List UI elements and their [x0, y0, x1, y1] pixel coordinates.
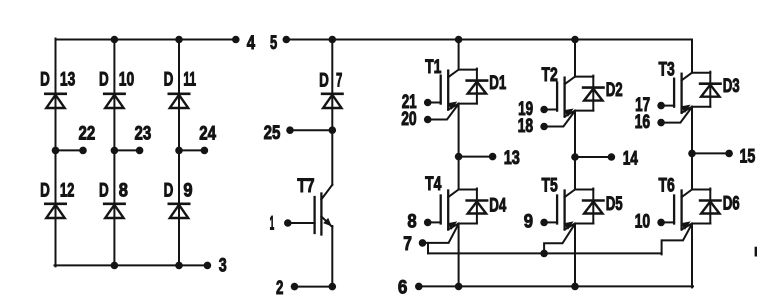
node 4 label: [247, 32, 255, 54]
svg-text:7: 7: [403, 233, 412, 255]
diode D6: [700, 201, 720, 214]
node 16 label: [635, 111, 651, 133]
svg-text:D: D: [319, 69, 329, 91]
svg-text:6: 6: [398, 277, 408, 297]
svg-text:9: 9: [524, 211, 533, 233]
transistor T2 collector diagonal: [565, 77, 575, 85]
node 2 terminal: [291, 283, 299, 291]
svg-text:12: 12: [60, 180, 75, 202]
svg-text:D: D: [164, 180, 174, 202]
svg-text:T7: T7: [297, 175, 314, 197]
svg-text:D: D: [40, 180, 50, 202]
diode D1 connection wires: [459, 69, 477, 104]
transistor T6 collector diagonal: [682, 190, 692, 198]
diode D6 connection wires: [692, 189, 710, 224]
svg-text:D6: D6: [723, 193, 740, 215]
svg-text:D4: D4: [489, 195, 506, 217]
diode D2 label: [606, 79, 623, 101]
transistor T2 gate bar: [556, 83, 558, 111]
node 6 label: [398, 277, 408, 297]
transistor T1 body bar: [447, 71, 449, 110]
diode D13 label: [40, 69, 75, 91]
transistor T4 collector diagonal: [448, 190, 458, 198]
transistor T5 emitter diagonal: [564, 221, 575, 229]
svg-text:14: 14: [623, 148, 638, 170]
transistor T4 gate bar: [440, 196, 442, 224]
transistor T6 label: [659, 175, 675, 197]
node 3 terminal: [204, 262, 212, 270]
svg-text:D: D: [40, 69, 50, 91]
transistor T3 emitter diagonal: [681, 105, 692, 113]
junction bottom rail / leg 1: [455, 283, 463, 291]
wire leg 1 midpoint: [458, 104, 460, 190]
svg-text:16: 16: [635, 111, 651, 133]
diode D11: [169, 94, 189, 108]
diode D9 label: [164, 180, 193, 202]
diode D1: [467, 81, 487, 94]
svg-text:9: 9: [183, 180, 192, 202]
svg-text:2: 2: [276, 277, 283, 297]
transistor T6 emitter diagonal: [681, 221, 692, 229]
svg-text:D: D: [99, 69, 109, 91]
svg-text:4: 4: [247, 32, 255, 54]
diode D2 connection wires: [575, 76, 593, 111]
svg-text:3: 3: [219, 254, 227, 276]
wire T5 gate lead (node 9): [544, 221, 557, 223]
svg-text:10: 10: [119, 69, 135, 91]
node 14 terminal: [608, 153, 616, 161]
transistor T5 collector diagonal: [565, 190, 575, 198]
transistor T3 collector diagonal: [682, 73, 692, 81]
node 8 terminal: [424, 219, 432, 227]
svg-text:20: 20: [401, 108, 417, 130]
wire stub node 24: [179, 149, 204, 151]
svg-text:8: 8: [407, 211, 416, 233]
node 3 label: [219, 254, 227, 276]
svg-text:13: 13: [504, 147, 520, 169]
junction top rail / column 3: [175, 36, 183, 44]
junction bottom rail / column 3: [175, 262, 183, 270]
svg-text:D: D: [164, 69, 174, 91]
node 18 terminal: [540, 123, 548, 131]
svg-text:T6: T6: [659, 175, 675, 197]
junction leg 2 / node 14: [571, 153, 579, 161]
node 18 label: [518, 115, 534, 137]
node 24 terminal: [201, 147, 209, 155]
diode D9: [169, 204, 189, 218]
wire T1 gate lead (node 21): [428, 102, 441, 104]
wire node 15 stub: [692, 152, 729, 154]
diode D3 connection wires: [692, 72, 710, 107]
node 17 label: [635, 94, 650, 116]
junction bottom rail / leg 2: [571, 283, 579, 291]
node 20 label: [401, 108, 417, 130]
diode D10: [104, 94, 124, 108]
cropped character at right edge: [755, 247, 757, 257]
diode D8 label: [99, 180, 128, 202]
svg-text:11: 11: [183, 69, 196, 91]
transistor T4 body bar: [447, 191, 449, 230]
junction leg 3 / node 15: [688, 150, 696, 158]
wire T3 gate lead (node 17): [661, 105, 674, 107]
wire T5 auxiliary emitter riser: [544, 224, 575, 254]
node 15 label: [740, 146, 756, 168]
junction chopper / node 25: [329, 126, 337, 134]
diode D4 label: [489, 195, 506, 217]
wire node 14 stub: [575, 156, 611, 158]
svg-text:24: 24: [199, 123, 216, 145]
wire left rectifier column 3: [178, 40, 180, 266]
junction emitter bus / T5 riser: [540, 250, 548, 258]
node 17 terminal: [657, 102, 665, 110]
node 14 label: [623, 148, 638, 170]
transistor T1 label: [425, 56, 441, 78]
node 24 label: [199, 123, 216, 145]
diode D3 label: [723, 75, 740, 97]
svg-text:25: 25: [264, 122, 281, 144]
svg-text:15: 15: [740, 146, 756, 168]
wire T6 gate lead (node 10): [661, 221, 674, 223]
svg-text:T3: T3: [659, 59, 675, 81]
svg-text:22: 22: [79, 123, 96, 145]
svg-text:T2: T2: [542, 64, 558, 86]
node 8 label: [407, 211, 416, 233]
node 21 label: [402, 91, 417, 113]
junction top rail / leg 1: [455, 36, 463, 44]
transistor T7 gate bar: [313, 197, 315, 233]
wire left rectifier column 2: [113, 40, 115, 266]
wire T4 emitter to bottom rail: [458, 224, 460, 287]
transistor T7 label: [297, 175, 314, 197]
diode D11 label: [164, 69, 197, 91]
diode D10 label: [99, 69, 134, 91]
node 19 label: [518, 98, 533, 120]
wire bottom DC- rail (node 6 rail): [419, 285, 693, 287]
node 7 label: [403, 233, 412, 255]
wire left rectifier column 1: [55, 39, 57, 267]
transistor T7 emitter diagonal: [321, 217, 332, 228]
node 5 terminal: [283, 36, 291, 44]
wire T1 auxiliary emitter lead (node 20): [428, 104, 459, 120]
diode D4 connection wires: [459, 189, 477, 224]
transistor T3 body bar: [680, 74, 682, 113]
node 19 terminal: [540, 106, 548, 114]
junction column / node 23: [111, 147, 119, 155]
diode D1 label: [489, 72, 506, 94]
transistor T2 label: [542, 64, 558, 86]
svg-text:23: 23: [135, 123, 152, 145]
diode D4: [467, 201, 487, 214]
wire T3 auxiliary emitter lead (node 16): [661, 107, 692, 123]
node 13 terminal: [489, 153, 497, 161]
diode D3: [700, 84, 720, 97]
svg-text:T1: T1: [425, 56, 441, 78]
diode D12: [45, 204, 65, 218]
wire T2 auxiliary emitter lead (node 18): [544, 111, 575, 127]
wire main DC+ top rail (node 5 rail): [286, 39, 692, 41]
wire node 7 lead to T4 emitter: [423, 224, 459, 243]
wire auxiliary emitter bus: [428, 252, 662, 254]
transistor T2 body bar: [563, 78, 565, 117]
diode D6 label: [723, 193, 740, 215]
wire T2 gate lead (node 19): [544, 109, 557, 111]
svg-text:8: 8: [119, 180, 128, 202]
wire chopper column lower: [331, 226, 333, 287]
wire T1 collector from rail: [458, 40, 460, 70]
junction leg 1 / node 13: [455, 153, 463, 161]
transistor T3 gate bar: [673, 79, 675, 107]
svg-text:18: 18: [518, 115, 534, 137]
wire bottom-left rail (node 3 rail): [55, 264, 208, 266]
diode D2: [583, 88, 603, 101]
diode D7: [322, 94, 342, 108]
transistor T4 emitter diagonal: [447, 221, 458, 229]
junction column / node 22: [52, 147, 60, 155]
diode D5 label: [606, 193, 623, 215]
transistor T7 body bar: [320, 194, 322, 235]
wire node 13 stub: [459, 156, 493, 158]
wire node 2 stub: [295, 286, 333, 288]
transistor T2 emitter diagonal: [564, 109, 575, 117]
svg-text:D3: D3: [723, 75, 740, 97]
wire T4 gate lead (node 8): [428, 221, 441, 223]
junction bottom rail / column 2: [111, 262, 119, 270]
node 21 terminal: [424, 99, 432, 107]
node 10 terminal: [657, 219, 665, 227]
svg-text:D1: D1: [489, 72, 506, 94]
node 22 terminal: [79, 147, 87, 155]
transistor T6 gate bar: [673, 196, 675, 224]
svg-text:D5: D5: [606, 193, 623, 215]
wire T6 emitter to bottom rail: [691, 224, 693, 288]
node 22 label: [79, 123, 96, 145]
wire leg 3 midpoint: [691, 107, 693, 190]
node 1 terminal: [284, 219, 292, 227]
transistor T7 collector diagonal: [321, 185, 332, 200]
svg-text:5: 5: [270, 32, 277, 54]
node 16 terminal: [657, 119, 665, 127]
node 1 label: [270, 212, 275, 234]
node 9 label: [524, 211, 533, 233]
svg-text:D2: D2: [606, 79, 623, 101]
transistor T5 gate bar: [556, 196, 558, 224]
svg-text:13: 13: [60, 69, 76, 91]
transistor T5 body bar: [563, 191, 565, 230]
node 9 terminal: [540, 219, 548, 227]
svg-text:7: 7: [336, 69, 342, 91]
transistor T1 gate bar: [440, 76, 442, 104]
node 5 label: [270, 32, 277, 54]
wire leg 2 midpoint: [574, 111, 576, 190]
svg-text:10: 10: [635, 211, 651, 233]
junction column / node 24: [175, 147, 183, 155]
node 2 label: [276, 277, 283, 297]
svg-text:D: D: [99, 180, 109, 202]
node 4 terminal: [232, 36, 240, 44]
diode D8: [104, 204, 124, 218]
wire node 25 stub: [290, 129, 332, 131]
transistor T5 label: [542, 175, 558, 197]
wire T6 auxiliary emitter riser: [662, 224, 692, 255]
transistor T6 body bar: [680, 191, 682, 230]
transistor T3 label: [659, 59, 675, 81]
node 6 terminal: [415, 283, 423, 291]
diode D13: [45, 94, 65, 108]
node 7 terminal: [419, 239, 427, 247]
wire node 7 riser to emitter bus: [427, 243, 429, 254]
junction top rail / column 2: [111, 36, 119, 44]
node 25 terminal: [286, 126, 294, 134]
node 20 terminal: [424, 116, 432, 124]
diode D7 label: [319, 69, 342, 91]
wire stub node 23: [114, 149, 139, 151]
wire chopper column upper: [331, 40, 333, 185]
wire top-left DC+ rail (node 4 rail): [56, 39, 236, 41]
diode D5 connection wires: [575, 189, 593, 224]
wire stub node 22: [56, 149, 84, 151]
node 23 terminal: [136, 147, 144, 155]
svg-text:T4: T4: [425, 173, 441, 195]
svg-text:T5: T5: [542, 175, 558, 197]
node 10 label: [635, 211, 651, 233]
transistor T1 collector diagonal: [448, 70, 458, 78]
node 13 label: [504, 147, 520, 169]
diode D12 label: [40, 180, 74, 202]
node 25 label: [264, 122, 281, 144]
svg-text:1: 1: [270, 212, 275, 234]
junction top rail / chopper: [329, 36, 337, 44]
wire T7 gate lead (node 1): [288, 222, 315, 224]
wire T2 collector from rail: [574, 40, 576, 77]
transistor T4 label: [425, 173, 441, 195]
transistor T1 emitter diagonal: [447, 102, 458, 110]
junction chopper / node 2: [329, 283, 337, 291]
junction top rail / leg 2: [571, 36, 579, 44]
node 23 label: [135, 123, 152, 145]
wire T3 collector from rail: [691, 40, 693, 73]
diode D5: [583, 201, 603, 214]
node 15 terminal: [725, 150, 733, 158]
wire T5 emitter to bottom rail: [574, 224, 576, 287]
